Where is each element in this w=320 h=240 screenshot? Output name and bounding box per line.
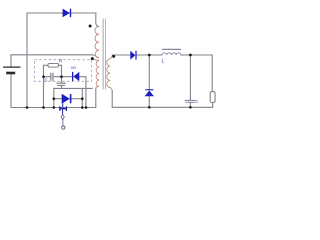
svg-text:VD: VD [71, 65, 77, 70]
svg-text:L: L [162, 59, 165, 65]
svg-text:C: C [196, 100, 199, 104]
svg-text:C: C [44, 78, 47, 83]
